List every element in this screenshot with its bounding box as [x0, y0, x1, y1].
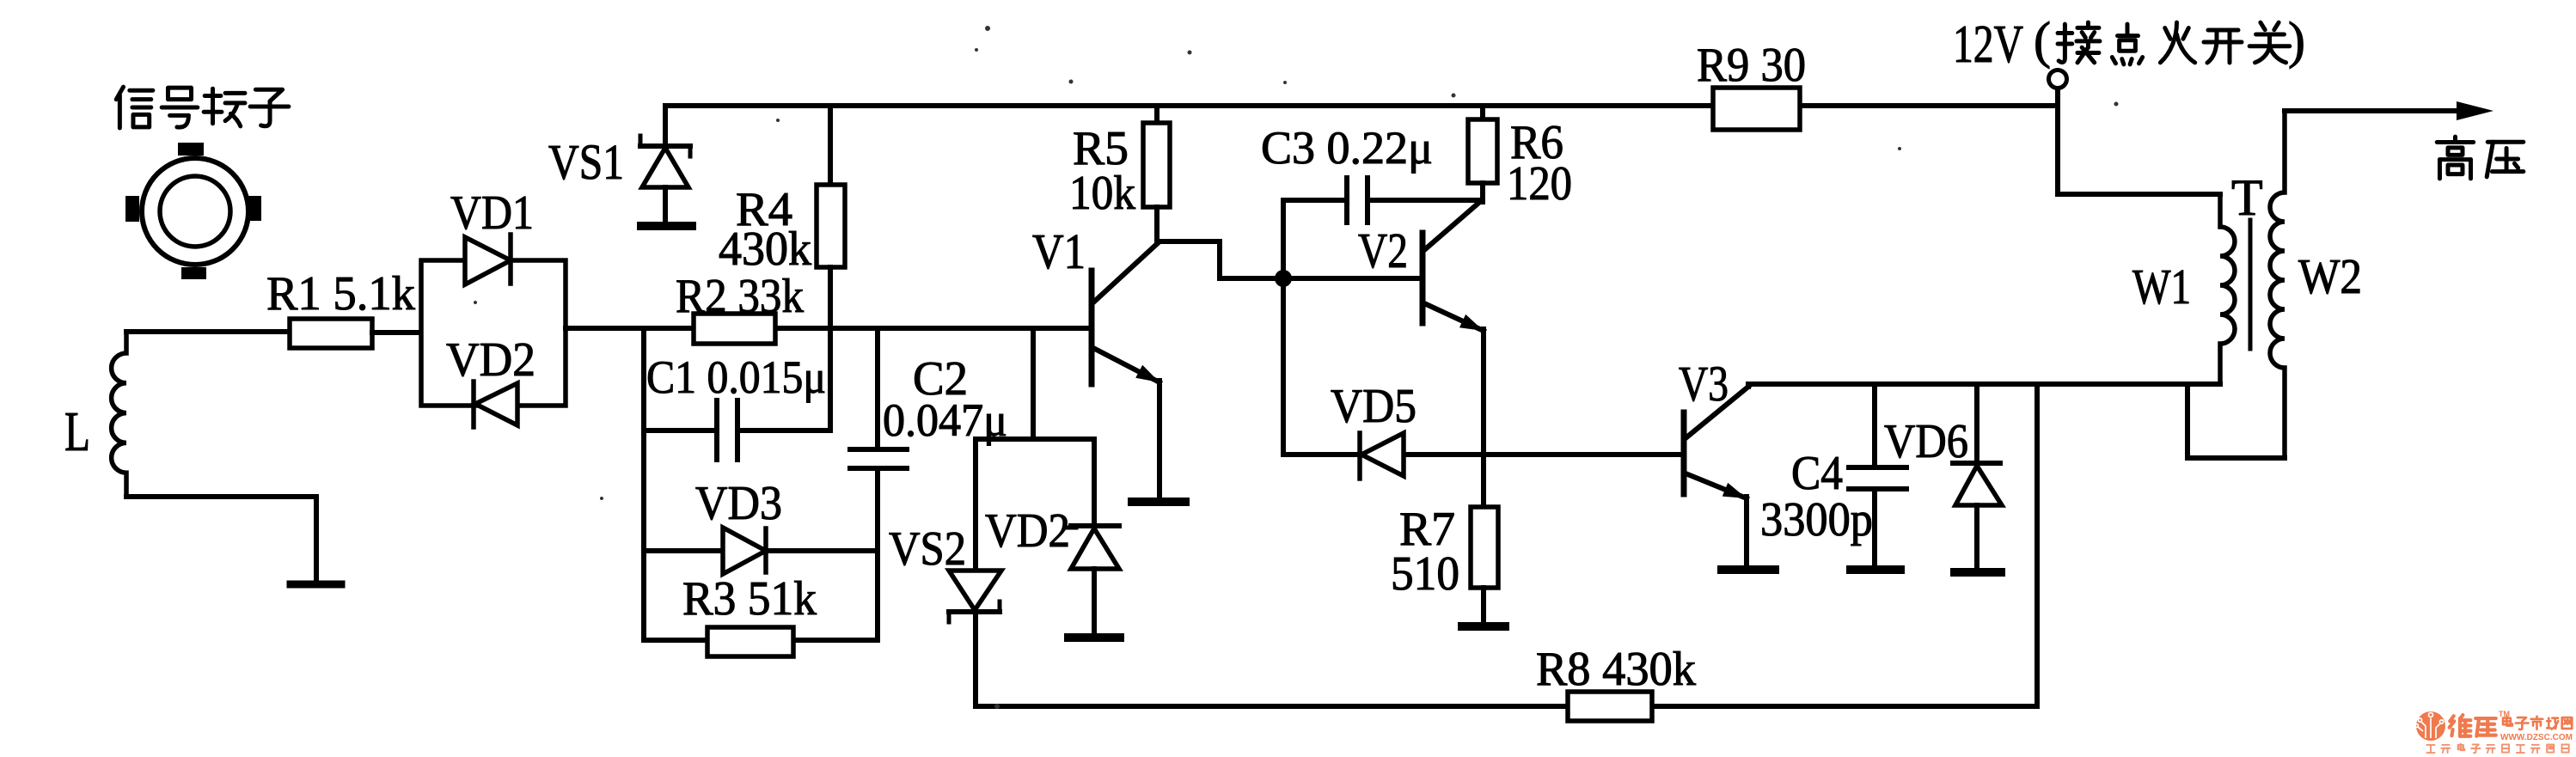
text hao	[162, 88, 198, 127]
diode VD2 (in box)	[475, 383, 517, 425]
text wm-wang	[2562, 717, 2573, 729]
zener VD2 (second)	[1092, 439, 1097, 528]
svg-text:VD1: VD1	[450, 186, 534, 240]
svg-text:VD6: VD6	[1884, 415, 1968, 468]
capacitor C3	[1283, 198, 1347, 203]
transistor V2	[1423, 200, 1487, 338]
wire V2 emitter to R7	[1481, 329, 1486, 507]
wire L top to R1	[126, 329, 290, 334]
svg-text:10k: 10k	[1069, 167, 1135, 220]
svg-text:R2 33k: R2 33k	[676, 270, 804, 323]
bottom feedback wire	[976, 704, 1568, 709]
resistor R1	[290, 319, 372, 348]
text gao	[2437, 137, 2473, 179]
text wm-s8	[2547, 744, 2554, 752]
text wm-shi	[2531, 717, 2543, 730]
text huo	[2160, 22, 2194, 63]
text wm-s3	[2471, 744, 2480, 753]
ground (VD2)	[1068, 633, 1120, 642]
svg-text:V2: V2	[1358, 223, 1408, 278]
wire base rail down to protection box	[1031, 328, 1036, 439]
svg-text:V1: V1	[1032, 223, 1086, 279]
inductor L (pickup coil)	[112, 332, 126, 497]
resistor R4	[828, 106, 833, 185]
text dian2	[2112, 24, 2142, 64]
transformer secondary W2	[2270, 111, 2285, 458]
svg-text:WWW.DZSC.COM: WWW.DZSC.COM	[2500, 733, 2573, 742]
high voltage output arrow	[2285, 108, 2480, 113]
resistor R8	[1568, 692, 1652, 721]
svg-text:0.047μ: 0.047μ	[883, 394, 1007, 446]
wire left branch vertical	[641, 328, 646, 640]
diode VD3	[644, 548, 878, 553]
node junction dot	[1275, 270, 1292, 287]
text wm-s0	[2426, 745, 2434, 753]
scan noise specks	[985, 26, 990, 31]
wire W2 bottom loop	[2187, 455, 2285, 461]
svg-text:W1: W1	[2132, 259, 2191, 314]
zener VS1	[663, 106, 668, 146]
wire L bottom to ground	[126, 494, 316, 499]
text xin	[116, 87, 153, 128]
text wm-s5	[2502, 744, 2509, 752]
zener VS2	[973, 439, 978, 571]
svg-text:120: 120	[1507, 157, 1572, 211]
resistor R9	[1713, 88, 1800, 130]
transformer core	[2249, 220, 2253, 349]
svg-text:T: T	[2231, 169, 2263, 226]
text wm-dian	[2503, 717, 2512, 726]
svg-text:3300p: 3300p	[1760, 493, 1873, 546]
text zi	[250, 89, 289, 126]
svg-text:VD3: VD3	[695, 477, 782, 530]
text guan	[2249, 22, 2290, 63]
svg-text:C3 0.22μ: C3 0.22μ	[1261, 122, 1433, 174]
capacitor C2	[875, 328, 880, 448]
svg-text:R8 430k: R8 430k	[1536, 643, 1696, 696]
svg-text:R9 30: R9 30	[1697, 39, 1806, 92]
svg-text:430k: 430k	[719, 223, 811, 276]
resistor R5	[1154, 106, 1160, 123]
ground (C4)	[1851, 565, 1900, 574]
text wm-s4	[2487, 745, 2495, 753]
text jie	[2058, 22, 2100, 63]
text wm-s7	[2531, 745, 2540, 753]
diode VD6	[1974, 384, 1979, 464]
text zhuan	[204, 89, 245, 126]
svg-text:VD2: VD2	[446, 333, 535, 387]
text kai	[2204, 30, 2242, 63]
text wm-s1	[2441, 745, 2450, 753]
text wm-s6	[2517, 745, 2524, 753]
resistor R3	[644, 638, 707, 643]
svg-text:R1 5.1k: R1 5.1k	[266, 267, 415, 321]
transistor V1	[1092, 243, 1163, 388]
svg-text:510: 510	[1391, 547, 1459, 601]
text wm-chang	[2547, 718, 2558, 730]
svg-text:VS1: VS1	[548, 134, 624, 190]
svg-text:C1 0.015μ: C1 0.015μ	[646, 351, 826, 403]
base rail wire (bridge to V1)	[775, 326, 1092, 331]
watermark logo circle	[2416, 711, 2445, 741]
wire right riser to collector rail	[2034, 384, 2040, 706]
svg-text:R3 51k: R3 51k	[682, 572, 817, 626]
ground (VD6)	[1955, 568, 2001, 577]
diode pair box (VD1/VD2)	[421, 260, 566, 406]
ground (V1)	[1132, 498, 1185, 506]
wire R5 to V1 collector	[1154, 207, 1160, 241]
svg-text:): )	[2288, 12, 2305, 69]
svg-text:C4: C4	[1791, 447, 1843, 500]
wire R1 to diode bridge	[372, 330, 421, 335]
wire V1 emitter to ground	[1157, 381, 1162, 500]
capacitor C4	[1872, 384, 1877, 466]
resistor R2	[694, 314, 775, 344]
svg-text:W2: W2	[2298, 248, 2362, 304]
svg-text:VD2: VD2	[985, 504, 1070, 558]
wire bridge to base rail	[566, 326, 694, 331]
wire 12V down to W1	[2055, 106, 2060, 194]
12V terminal	[2049, 70, 2067, 89]
wire V3 emitter to ground	[1744, 497, 1749, 568]
ground (R7)	[1462, 622, 1505, 631]
top supply rail wire	[665, 103, 1713, 108]
text wm-ku	[2475, 718, 2496, 736]
svg-text:12V: 12V	[1953, 15, 2023, 74]
wire R4 down to C1	[828, 267, 833, 430]
svg-text:(: (	[2034, 12, 2051, 69]
svg-text:V3: V3	[1679, 356, 1729, 412]
wire box top edge	[976, 436, 1094, 442]
ground (V3)	[1722, 565, 1775, 574]
transformer T primary W1	[2220, 194, 2235, 384]
text wm-s2	[2458, 743, 2465, 750]
svg-text:L: L	[64, 400, 90, 463]
svg-text:VD5: VD5	[1331, 380, 1416, 433]
signal rotor (pickup) symbol	[125, 143, 261, 279]
wire right side of R3 loop	[875, 468, 880, 640]
text wm-wei	[2450, 715, 2471, 736]
wire node down to VD5	[1281, 278, 1286, 455]
wire V1 collector to node	[1157, 239, 1220, 244]
transistor V3	[1684, 387, 1749, 505]
svg-text:VS2: VS2	[889, 522, 966, 576]
capacitor C1	[644, 428, 717, 433]
text ya	[2487, 142, 2524, 177]
resistor R6	[1480, 106, 1485, 119]
text wm-s9	[2562, 744, 2569, 752]
label dash VD2	[1066, 526, 1076, 530]
wire node up to C3	[1281, 200, 1286, 278]
ground (L)	[291, 581, 341, 589]
wire V3 collector rail	[1746, 384, 1751, 387]
text wm-zi	[2516, 717, 2529, 730]
diode VD5	[1283, 452, 1681, 457]
resistor R7	[1471, 507, 1498, 588]
diode VD1	[465, 237, 511, 284]
